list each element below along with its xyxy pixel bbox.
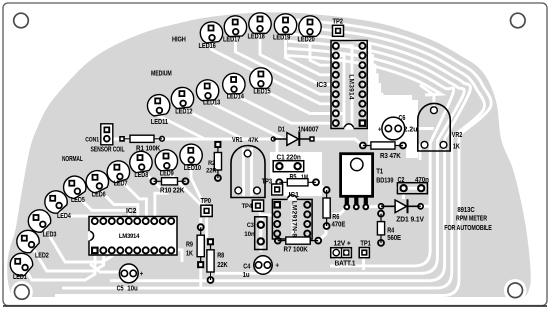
wire arc trace ring 4 [215, 41, 464, 273]
svg-text:IC2: IC2 [126, 208, 137, 215]
LED LED7 [107, 161, 129, 188]
svg-text:LED3: LED3 [43, 231, 57, 238]
wire under VR1 b [250, 148, 253, 196]
svg-text:R2: R2 [208, 160, 215, 167]
wire IC3 right pin 6 [363, 94, 382, 118]
LED LED9 [155, 150, 177, 178]
svg-text:R10 22K: R10 22K [160, 188, 184, 195]
wire R4 up [379, 207, 382, 214]
svg-text:1K: 1K [186, 251, 193, 258]
svg-text:470E: 470E [332, 222, 346, 229]
svg-text:LED13: LED13 [203, 99, 220, 106]
svg-text:1M: 1M [301, 174, 308, 181]
wire TP2 link [336, 30, 339, 41]
mounting hole top-left [14, 13, 29, 28]
LED LED11 [147, 95, 169, 126]
wire LED16 to IC3 [212, 39, 336, 104]
svg-text:LM3914: LM3914 [348, 74, 355, 100]
resistor R2 22K [206, 141, 222, 182]
LED LED3 [28, 210, 56, 239]
wire arc trace ring 1 [55, 20, 491, 296]
svg-text:LED17: LED17 [223, 37, 240, 44]
capacitor C5 10u [117, 264, 144, 293]
wire sensor row [107, 138, 273, 141]
svg-text:R6: R6 [332, 214, 339, 221]
LED LED15 [250, 68, 272, 95]
wire IC3 right pin 8 [363, 114, 387, 119]
wire arc trace ring 3 [110, 34, 470, 281]
LED LED18 [248, 13, 272, 41]
svg-text:TP1: TP1 [360, 241, 371, 248]
test point TP0 [201, 198, 213, 217]
svg-text:LM2917N-8: LM2917N-8 [291, 201, 298, 238]
transistor T1 BD139 [341, 154, 394, 211]
mounting hole bottom-right [508, 283, 523, 298]
svg-text:47K: 47K [248, 137, 259, 144]
wire LED6 to IC2 [97, 188, 138, 220]
svg-text:T1: T1 [376, 169, 383, 176]
svg-text:VR1: VR1 [232, 137, 243, 144]
wire IC3 right pin 5 [363, 85, 380, 119]
svg-text:FOR AUTOMOBILE: FOR AUTOMOBILE [444, 225, 492, 232]
LED LED12 [171, 87, 193, 115]
wire LED18 to IC3 [260, 30, 336, 85]
wire ZD1 right [421, 196, 430, 206]
wire LED17 to IC3 [236, 33, 336, 94]
op-amp IC1 LM2917N-8 [272, 192, 312, 239]
svg-text:LED4: LED4 [57, 213, 71, 220]
wire under C2 [396, 187, 428, 190]
connector CON1 [85, 124, 124, 154]
svg-text:R4: R4 [387, 228, 394, 235]
svg-text:C1 220n: C1 220n [277, 155, 301, 162]
capacitor C4 1u [243, 256, 280, 279]
wire C3 to C4 [259, 241, 262, 252]
svg-text:R3 47K: R3 47K [380, 153, 401, 160]
wire TP4 to C3 [258, 206, 261, 225]
test point TP3 [262, 179, 283, 196]
capacitor C1 220n [273, 155, 304, 172]
wire LED14 trace [234, 91, 336, 124]
wire C6 to VR2 [399, 127, 434, 130]
wire IC3 right pin 2 [363, 56, 372, 119]
svg-text:TP3: TP3 [262, 179, 273, 186]
wire under VR1 a [242, 148, 245, 196]
svg-text:LED2: LED2 [35, 253, 49, 260]
svg-text:LED8: LED8 [134, 172, 148, 179]
wire TP0 down [205, 214, 208, 238]
svg-text:+: + [276, 260, 280, 269]
zener ZD1 9.1V [378, 199, 425, 223]
wire LED1 to IC2 [26, 252, 96, 280]
test point TP1 [359, 241, 371, 258]
svg-text:TP4: TP4 [242, 203, 253, 210]
svg-text:22K: 22K [206, 168, 217, 175]
svg-text:LED12: LED12 [175, 108, 192, 115]
resistor R9 1K [186, 223, 205, 268]
wire C1 to R5 [298, 166, 308, 182]
wire IC3 right pin 7 [363, 104, 384, 118]
svg-text:LED15: LED15 [253, 88, 270, 95]
wire IC3 inner a [336, 46, 352, 126]
wire LED12 trace [183, 105, 244, 139]
svg-text:R5: R5 [290, 174, 297, 181]
capacitor C2 470n [397, 177, 428, 194]
wire under C3 [259, 218, 262, 248]
wire R3 to T1 [403, 146, 420, 161]
resistor R5 1M [275, 174, 320, 186]
svg-text:D1: D1 [278, 126, 285, 133]
preset VR2 1K [418, 103, 463, 151]
wire IC3 right pin 1 [363, 46, 370, 118]
wire R9 top [199, 218, 202, 227]
wire IC3 right pin 3 [363, 65, 375, 118]
wire R5 right [316, 182, 327, 190]
svg-text:LED14: LED14 [227, 94, 244, 101]
svg-text:C3: C3 [247, 222, 254, 229]
svg-text:R9: R9 [186, 241, 193, 248]
wire LED11 trace [159, 112, 205, 139]
svg-text:RPM METER: RPM METER [456, 215, 487, 222]
wire IC3 inner b [336, 56, 344, 127]
connector BATT.1 12V [331, 241, 356, 268]
svg-text:560E: 560E [387, 235, 401, 242]
svg-text:BATT.1: BATT.1 [335, 260, 356, 267]
preset VR1 47K [231, 137, 265, 197]
hole notch bottom-left [11, 281, 33, 303]
svg-text:10n: 10n [244, 231, 254, 238]
wire under IC1 [292, 204, 295, 236]
svg-text:LED10: LED10 [184, 165, 201, 172]
wire C6 up [376, 105, 388, 129]
svg-text:C2: C2 [398, 177, 405, 184]
wire D1 down [276, 139, 279, 166]
svg-text:1K: 1K [453, 144, 460, 151]
trace pour near C6 [368, 95, 412, 145]
svg-text:+: + [140, 269, 144, 278]
svg-text:LED20: LED20 [298, 37, 315, 44]
svg-text:10u: 10u [127, 286, 137, 293]
svg-text:LED9: LED9 [160, 171, 174, 178]
wire D1 to R3 [311, 139, 363, 146]
wire TP3 to R5 [277, 182, 279, 189]
svg-text:IC3: IC3 [317, 82, 328, 89]
svg-text:+: + [378, 125, 382, 134]
wire batt plus [336, 257, 339, 268]
wire LED5 to IC2 [75, 193, 130, 220]
svg-text:LED18: LED18 [248, 34, 265, 41]
svg-text:TP0: TP0 [201, 198, 212, 205]
resistor R8 22K [207, 238, 228, 284]
wire LED8 to IC2 [141, 169, 166, 221]
wire C5 left [90, 264, 125, 272]
svg-text:TP2: TP2 [333, 19, 344, 26]
svg-text:VR2: VR2 [452, 132, 463, 139]
svg-text:2.2u: 2.2u [404, 127, 418, 134]
svg-text:12V +: 12V + [334, 241, 351, 248]
wire LED4 to IC2 [56, 208, 121, 220]
mounting hole top-right [511, 13, 526, 28]
svg-text:C4: C4 [243, 264, 250, 271]
test point TP4 [242, 200, 264, 211]
wire IC2 right [172, 250, 182, 262]
svg-text:LED1: LED1 [13, 274, 27, 281]
wire arc trace ring 2 [62, 27, 484, 288]
wire LED15 trace [261, 85, 336, 114]
svg-text:CON1: CON1 [85, 137, 99, 144]
resistor R1 100K [119, 135, 165, 152]
LED LED8 [130, 151, 152, 179]
wire arc trace ring 6 [287, 56, 441, 95]
svg-text:LED16: LED16 [199, 43, 216, 50]
LED LED19 [273, 14, 297, 42]
mounting hole bottom-left [14, 285, 29, 300]
resistor R3 47K [359, 142, 407, 160]
LED LED2 [17, 230, 49, 259]
svg-text:LM3914: LM3914 [119, 234, 140, 240]
LED LED13 [196, 80, 220, 107]
diode D1 1N4007 [271, 126, 319, 146]
capacitor C6 2.2u [378, 115, 417, 140]
svg-text:8913C: 8913C [457, 207, 474, 214]
svg-text:22K: 22K [217, 262, 228, 269]
wire LED3 to IC2 [44, 226, 113, 262]
svg-text:1N4007: 1N4007 [298, 126, 319, 133]
wire arc trace ring 5 [287, 48, 453, 266]
LED LED14 [223, 73, 245, 100]
svg-text:R7 100K: R7 100K [284, 247, 308, 254]
resistor R4 560E [377, 210, 401, 247]
wire IC3 right pin 9 [363, 118, 389, 123]
trace pour around C1 R5 [270, 152, 322, 196]
svg-text:IC1: IC1 [289, 192, 300, 199]
svg-text:BD139: BD139 [376, 178, 393, 185]
wire T1 base [332, 207, 347, 214]
wire IC3 right pin 4 [363, 75, 377, 118]
LED LED10 [180, 144, 202, 172]
wire LED20 to IC3 [310, 33, 336, 65]
wire LED9 to IC2 [166, 167, 206, 211]
svg-text:LED11: LED11 [151, 119, 168, 126]
svg-text:LED6: LED6 [92, 191, 106, 198]
svg-text:470n: 470n [415, 177, 429, 184]
svg-text:C6: C6 [399, 115, 406, 122]
LED LED20 [298, 16, 322, 44]
svg-text:C5: C5 [117, 285, 124, 292]
svg-text:LED7: LED7 [114, 181, 128, 188]
wire LED13 trace [208, 97, 284, 139]
wire LED2 to IC2 [32, 247, 104, 272]
test point TP2 [333, 19, 344, 37]
wire IC1 left [262, 215, 272, 230]
wire LED7 to IC2 [118, 178, 146, 220]
hole notch bottom-right [504, 279, 527, 302]
wire R9 bottom [199, 266, 202, 288]
wire IC3 inner c [336, 112, 344, 115]
svg-text:LED5: LED5 [71, 197, 85, 204]
svg-text:1u: 1u [243, 272, 250, 279]
wire VR2 top [420, 85, 434, 109]
wire TP1 down [362, 257, 365, 270]
LED LED17 [223, 16, 247, 44]
IC3 LM3914 [317, 41, 368, 129]
wire R8 bottom [209, 272, 212, 280]
trace pour left of VR2 [406, 100, 418, 158]
resistor R10 22K [150, 177, 190, 194]
resistor R6 470E [323, 186, 346, 230]
wire LED10 to IC2 [191, 161, 207, 210]
svg-text:LED19: LED19 [273, 35, 290, 42]
wire LED19 to IC3 [286, 31, 336, 75]
resistor R7 100K [274, 237, 322, 254]
wire T1 to C2 [364, 205, 381, 208]
LED LED5 [64, 176, 86, 204]
svg-text:MEDIUM: MEDIUM [151, 71, 172, 78]
IC2 LM3914 [89, 208, 177, 255]
svg-text:ZD1 9.1V: ZD1 9.1V [396, 217, 424, 224]
wire R7 to IC1 [318, 226, 326, 241]
svg-text:R8: R8 [217, 253, 224, 260]
LED LED4 [45, 191, 71, 220]
LED LED6 [86, 171, 108, 199]
svg-text:NORMAL: NORMAL [62, 156, 83, 163]
svg-text:HIGH: HIGH [172, 37, 186, 44]
capacitor C3 10n [244, 217, 267, 250]
wire C2 down [402, 188, 405, 199]
LED LED1 [10, 253, 32, 281]
svg-text:R1 100K: R1 100K [136, 146, 160, 153]
svg-text:SENSOR COIL: SENSOR COIL [91, 147, 125, 154]
LED LED16 [199, 22, 223, 50]
